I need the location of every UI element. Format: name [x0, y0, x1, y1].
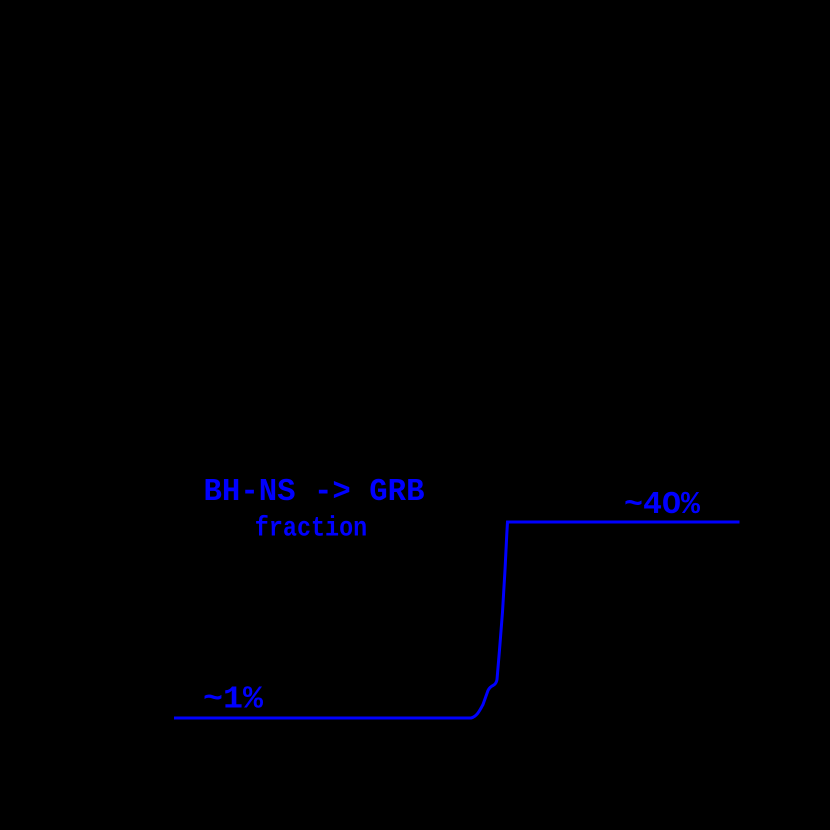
svg-text:~1%: ~1% — [203, 683, 263, 718]
svg-text:fraction: fraction — [255, 514, 367, 545]
curve: BH-NS GRB fraction step function — [174, 522, 740, 718]
svg-text:BH-NS -> GRB: BH-NS -> GRB — [204, 475, 425, 510]
svg-text:~4O%: ~4O% — [624, 488, 700, 523]
